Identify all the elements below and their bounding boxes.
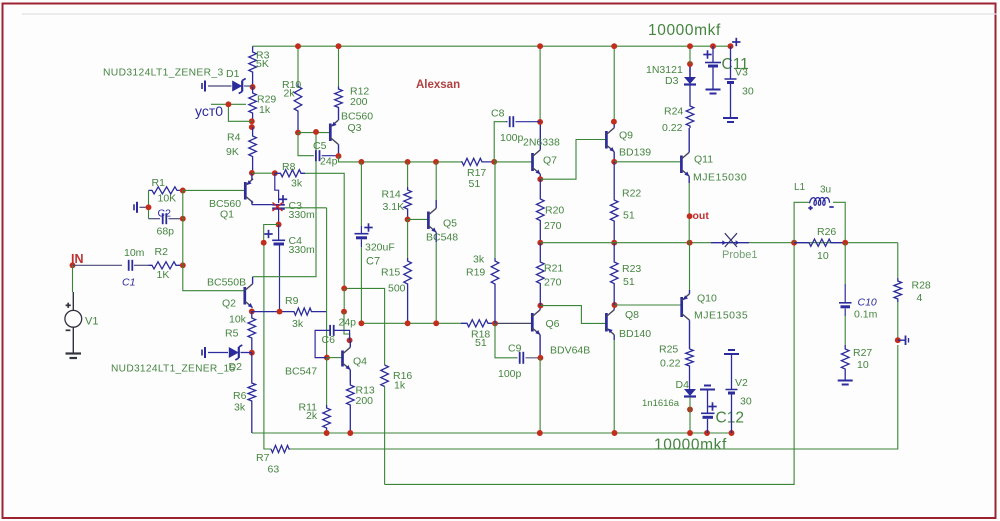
- junction R28 tie: [895, 337, 901, 343]
- wire Q2 collector to Q3 base: [253, 132, 316, 277]
- svg-text:C7: C7: [366, 256, 380, 268]
- svg-text:68p: 68p: [157, 226, 175, 238]
- svg-text:Probe1: Probe1: [722, 249, 757, 261]
- svg-text:BD140: BD140: [619, 328, 651, 340]
- capacitor C10: [839, 284, 852, 316]
- label C2: [158, 208, 172, 220]
- junction R20 bottom: [537, 240, 543, 246]
- svg-text:R24: R24: [664, 106, 683, 118]
- resistor R7: [256, 445, 290, 475]
- svg-text:320uF: 320uF: [365, 242, 395, 254]
- svg-text:330m: 330m: [289, 209, 316, 221]
- transistor Q2: [245, 277, 253, 308]
- junction R7 top node: [261, 240, 267, 246]
- svg-text:Alexsan: Alexsan: [416, 79, 460, 91]
- label C12: [716, 410, 744, 427]
- label C10: [858, 297, 877, 309]
- capacitor C4: [264, 225, 285, 245]
- wire C10 bottom lead: [844, 316, 846, 345]
- junction Q2 emitter: [249, 308, 255, 314]
- svg-text:Q1: Q1: [220, 209, 234, 221]
- wire feedback line R7 row: [290, 345, 898, 449]
- svg-text:500: 500: [388, 283, 406, 295]
- capacitor C12: [700, 386, 717, 434]
- wire Q8 emitter to rail: [613, 340, 615, 433]
- resistor R16: [381, 365, 413, 392]
- junction rail r12: [336, 43, 342, 49]
- junction IN node: [70, 262, 76, 268]
- label C3: [289, 200, 316, 221]
- svg-text:10k: 10k: [229, 314, 247, 326]
- svg-text:R7: R7: [256, 452, 270, 464]
- wire Q5 collector: [435, 162, 437, 200]
- svg-text:V3: V3: [735, 67, 748, 79]
- wire D3 to rail: [689, 46, 691, 64]
- ground V1: [66, 354, 82, 359]
- label C8: [491, 108, 505, 120]
- svg-text:R5: R5: [225, 328, 239, 340]
- svg-text:0.22: 0.22: [662, 122, 683, 134]
- resistor R29: [249, 87, 277, 121]
- junction D3 top: [687, 61, 693, 67]
- junction rail d3: [687, 43, 693, 49]
- svg-text:63: 63: [268, 464, 280, 476]
- svg-text:1n1616a: 1n1616a: [642, 398, 680, 409]
- svg-text:4: 4: [917, 292, 923, 304]
- junction rail v3: [728, 43, 734, 49]
- label D4: [642, 379, 689, 409]
- wire R7 left bend: [264, 243, 271, 449]
- junction R8 column b: [341, 309, 347, 315]
- svg-text:R20: R20: [545, 205, 564, 217]
- svg-text:D1: D1: [226, 68, 240, 80]
- transistor Q10: [682, 290, 690, 349]
- svg-text:уст0: уст0: [195, 103, 223, 119]
- svg-text:R23: R23: [622, 263, 641, 275]
- wire C9 left leg: [495, 323, 516, 357]
- wire R14 top lead: [407, 162, 409, 187]
- junction уст0: [225, 101, 231, 107]
- svg-text:C2: C2: [158, 208, 172, 220]
- svg-text:200: 200: [350, 96, 368, 108]
- tie input left: [134, 202, 149, 213]
- junction Q4 base: [324, 355, 330, 361]
- junction C4 top: [276, 222, 282, 228]
- junction Q6 emitter node: [537, 355, 543, 361]
- svg-text:0.22: 0.22: [660, 358, 681, 370]
- label L1: [794, 182, 831, 196]
- svg-text:200: 200: [356, 395, 374, 407]
- junction out bus q11: [687, 240, 693, 246]
- junction R14 top: [405, 159, 411, 165]
- label out: [693, 210, 710, 222]
- wire Q1 collector: [252, 204, 272, 206]
- svg-text:out: out: [693, 210, 710, 222]
- wire Q9 emitter to Q11 base: [614, 161, 681, 163]
- label C2 value: [157, 226, 175, 238]
- resistor R26: [794, 226, 845, 262]
- junction rail q7: [537, 43, 543, 49]
- label D2: [229, 361, 243, 373]
- wire R19 top lead: [494, 162, 496, 258]
- transistor Q6: [532, 306, 540, 358]
- wire C5 left leg: [298, 133, 313, 156]
- resistor R19: [466, 254, 499, 324]
- junction mid bus a: [358, 320, 364, 326]
- label C1: [122, 277, 135, 289]
- wire positive rail: [253, 45, 731, 47]
- wire negative rail: [252, 432, 732, 434]
- wire R9 row: [252, 311, 290, 313]
- svg-text:BC547: BC547: [285, 366, 317, 378]
- resistor R10: [282, 79, 302, 133]
- svg-text:30: 30: [740, 396, 752, 408]
- svg-text:D4: D4: [676, 379, 690, 391]
- junction R29 bottom: [249, 118, 255, 130]
- svg-text:Q10: Q10: [697, 293, 717, 305]
- svg-text:V2: V2: [735, 377, 748, 389]
- wire C3 to Q4 column: [285, 207, 327, 209]
- junction R8 column a: [341, 285, 347, 291]
- svg-text:2N6338: 2N6338: [523, 137, 560, 149]
- resistor R1: [149, 177, 183, 205]
- svg-text:10K: 10K: [158, 193, 177, 205]
- wire column to jog: [343, 288, 345, 311]
- svg-text:R21: R21: [544, 263, 563, 275]
- svg-text:BC548: BC548: [426, 232, 458, 244]
- label Q9: [619, 130, 651, 159]
- svg-text:MJE15030: MJE15030: [693, 172, 747, 184]
- wire R1 left leg: [148, 190, 150, 218]
- zener diode D1: [202, 79, 253, 94]
- wire Q5 emitter: [435, 242, 437, 323]
- zener diode D2: [202, 345, 252, 360]
- svg-text:24p: 24p: [339, 317, 357, 329]
- mark C3 cross: [273, 203, 283, 212]
- junction R18 right: [492, 320, 498, 326]
- wire Q7 collector to rail: [539, 46, 541, 122]
- label C10 value: [854, 309, 878, 321]
- label Q4: [285, 356, 367, 378]
- svg-text:D3: D3: [665, 75, 679, 87]
- wire output bus right: [749, 242, 898, 244]
- label V1: [85, 316, 98, 328]
- top grey rule: [22, 13, 997, 15]
- label Probe1: [722, 249, 757, 261]
- svg-text:Q7: Q7: [543, 155, 557, 167]
- mark V3 plus: [732, 38, 740, 46]
- resistor R17: [461, 158, 494, 190]
- wire C3 top jog: [275, 173, 279, 203]
- resistor R14: [382, 187, 412, 219]
- wire C7 bottom lead: [360, 247, 362, 323]
- label C6: [322, 334, 336, 346]
- source V1: [65, 292, 82, 353]
- junction Q9 emitter node: [611, 159, 617, 165]
- resistor R2: [149, 246, 183, 281]
- wire R28 leads: [897, 243, 899, 341]
- source V3: [725, 46, 737, 117]
- svg-text:1K: 1K: [157, 269, 170, 281]
- svg-text:NUD3124LT1_ZENER_15: NUD3124LT1_ZENER_15: [111, 364, 235, 375]
- wire Q6 base: [495, 322, 532, 324]
- source V2: [724, 350, 739, 433]
- svg-text:3k: 3k: [473, 254, 485, 266]
- wire Q10 emitter to out: [689, 243, 691, 290]
- junction Q1 emitter node: [249, 170, 255, 176]
- svg-text:C8: C8: [491, 108, 505, 120]
- wire output bus: [540, 242, 711, 244]
- wire C8 left leg: [494, 122, 506, 162]
- svg-text:5K: 5K: [256, 58, 269, 70]
- svg-text:R2: R2: [155, 246, 169, 258]
- wire out feedback drop: [385, 243, 794, 485]
- inductor L1: [794, 198, 845, 243]
- label Q7: [523, 137, 560, 167]
- wire C4 left bracket: [264, 225, 279, 243]
- net label уст0: [195, 103, 223, 119]
- junction mid bus b: [405, 320, 411, 326]
- wire Q9 collector to rail: [613, 46, 615, 122]
- svg-text:BC560: BC560: [341, 111, 373, 123]
- svg-text:C12: C12: [716, 410, 744, 427]
- wire middle bus: [361, 322, 461, 324]
- junction tie node: [146, 204, 152, 210]
- transistor Q11: [681, 128, 689, 183]
- svg-text:BC550B: BC550B: [207, 277, 246, 289]
- svg-text:3k: 3k: [234, 402, 246, 414]
- wire Q2 base: [183, 265, 245, 290]
- label Alexsan: [416, 79, 460, 91]
- wire R8 to Q4 collector column: [305, 173, 344, 288]
- svg-text:R4: R4: [227, 132, 241, 144]
- label C11: [722, 56, 749, 73]
- svg-text:51: 51: [623, 276, 635, 288]
- junction D2 node: [249, 350, 255, 356]
- junction rail v2: [729, 430, 735, 436]
- svg-text:R22: R22: [622, 188, 641, 200]
- junction out bus L1 left: [791, 240, 797, 246]
- wire Q7 emitter to Q9 base: [540, 140, 606, 180]
- svg-text:2k: 2k: [306, 410, 318, 422]
- svg-text:V1: V1: [85, 316, 98, 328]
- label BC560 Q3: [341, 111, 373, 135]
- resistor R4: [226, 127, 256, 173]
- label C5: [313, 140, 327, 152]
- label V3: [735, 67, 754, 98]
- resistor R18: [461, 320, 495, 349]
- wire jog to Q4 collector: [344, 312, 350, 341]
- resistor R27: [841, 345, 872, 380]
- svg-text:270: 270: [544, 220, 562, 232]
- junction rail d4: [687, 430, 693, 436]
- svg-text:1k: 1k: [259, 104, 271, 116]
- svg-text:R8: R8: [282, 161, 296, 173]
- svg-text:Q3: Q3: [348, 122, 362, 134]
- wire Q4 base stub: [327, 357, 343, 359]
- svg-text:NUD3124LT1_ZENER_3: NUD3124LT1_ZENER_3: [103, 68, 224, 79]
- transistor Q5: [428, 200, 436, 242]
- capacitor C1: [129, 260, 149, 271]
- junction Q5 base node: [405, 216, 411, 222]
- label C5 value: [320, 156, 338, 168]
- junction C4 bottom node: [277, 309, 283, 315]
- svg-text:51: 51: [475, 337, 487, 349]
- junction mid bus c: [433, 320, 439, 326]
- svg-text:10m: 10m: [124, 247, 145, 259]
- capacitor C6: [315, 325, 350, 358]
- label C7: [366, 256, 380, 268]
- label 10000mkf top: [648, 22, 721, 39]
- resistor R24: [662, 64, 694, 134]
- junction R11 bottom: [324, 430, 330, 436]
- wire R16 column upper: [344, 288, 384, 365]
- label C8 value: [500, 132, 524, 144]
- svg-text:Q11: Q11: [694, 154, 713, 166]
- resistor R22: [610, 162, 641, 243]
- wire Q10 base link: [615, 304, 682, 306]
- svg-text:D2: D2: [229, 361, 243, 373]
- label 10000mkf bottom: [654, 437, 727, 454]
- tie R28: [898, 336, 909, 346]
- diode D3: [684, 64, 696, 85]
- wire Q6 emitter to rail: [539, 358, 541, 433]
- resistor R5: [225, 311, 256, 352]
- wire IN to C1: [73, 264, 123, 266]
- probe Probe1: [711, 233, 749, 247]
- label C1 value: [124, 247, 145, 259]
- capacitor C8: [506, 116, 540, 127]
- junction R10 bottom: [295, 130, 301, 136]
- svg-text:0.1m: 0.1m: [854, 309, 878, 321]
- junction D1 node: [250, 84, 256, 90]
- junction R13 bottom: [347, 430, 353, 436]
- capacitor C3: [272, 195, 287, 209]
- svg-text:Q4: Q4: [353, 356, 367, 368]
- svg-text:9K: 9K: [226, 146, 239, 158]
- label BC550B Q2: [207, 277, 246, 310]
- ground V3: [723, 118, 738, 122]
- junction Q4 collector node: [347, 337, 353, 343]
- transistor Q8: [606, 305, 614, 340]
- transistor Q3: [330, 108, 338, 156]
- svg-text:Q2: Q2: [222, 298, 236, 310]
- junction C7 top: [358, 159, 364, 165]
- wire Q6 to Q8 link: [540, 306, 606, 324]
- resistor R13: [347, 383, 375, 433]
- wire C10 top lead: [844, 243, 846, 284]
- resistor R9: [285, 295, 327, 330]
- svg-text:C1: C1: [122, 277, 135, 289]
- junction Q7 emitter node: [537, 176, 543, 182]
- label BC560 Q1: [209, 198, 241, 221]
- resistor R25: [659, 344, 693, 390]
- junction rail q9: [611, 43, 617, 49]
- junction Q9 collector pin: [611, 119, 617, 125]
- resistor R12: [335, 86, 370, 109]
- label V2: [735, 377, 752, 408]
- svg-text:270: 270: [544, 277, 562, 289]
- svg-text:10000mkf: 10000mkf: [654, 437, 727, 454]
- svg-text:R6: R6: [233, 390, 247, 402]
- svg-text:10000mkf: 10000mkf: [648, 22, 721, 39]
- capacitor C7: [355, 223, 373, 247]
- wire C7 top lead: [360, 162, 362, 226]
- junction Q8 top node: [612, 302, 618, 308]
- svg-text:L1: L1: [794, 182, 806, 193]
- wire VAS bus: [339, 156, 462, 162]
- junction Q5 collector node: [433, 159, 439, 165]
- wire Q3 base row: [298, 132, 330, 134]
- wire R12 top lead: [338, 46, 340, 86]
- transistor Q1: [245, 173, 253, 205]
- label Q10: [694, 293, 748, 322]
- svg-text:24p: 24p: [320, 156, 338, 168]
- svg-text:10: 10: [857, 359, 869, 371]
- svg-text:R1: R1: [152, 177, 166, 189]
- capacitor C2: [149, 213, 183, 224]
- resistor R28: [894, 278, 931, 304]
- wire Q1 emitter to R8 node: [252, 172, 275, 174]
- wire Q5 base: [408, 218, 429, 220]
- svg-text:100p: 100p: [498, 368, 522, 380]
- junction C8 right node: [537, 119, 543, 125]
- junction R8 left: [272, 170, 278, 176]
- resistor R8: [275, 161, 305, 190]
- svg-text:R28: R28: [912, 280, 931, 292]
- svg-text:R9: R9: [285, 295, 299, 307]
- label C4: [289, 235, 316, 256]
- junction out pin: [687, 213, 693, 219]
- resistor R23: [610, 243, 641, 305]
- label C7 value: [365, 242, 395, 254]
- capacitor C9: [516, 352, 541, 364]
- wire Q1 base: [183, 189, 246, 191]
- junction Q6 collector node: [537, 303, 543, 309]
- svg-text:10: 10: [817, 250, 829, 262]
- wire Q4 base column: [326, 208, 328, 358]
- resistor R15: [381, 258, 411, 323]
- junction Q3 base node: [313, 129, 319, 135]
- svg-text:R15: R15: [381, 267, 400, 279]
- svg-text:30: 30: [742, 86, 754, 98]
- svg-text:51: 51: [469, 178, 481, 190]
- svg-text:51: 51: [623, 210, 635, 222]
- label C9: [498, 343, 522, 381]
- svg-text:Q8: Q8: [625, 309, 639, 321]
- label NUD3124LT1_ZENER_3: [103, 68, 224, 79]
- junction C2 right: [180, 216, 186, 222]
- svg-text:MJE15035: MJE15035: [694, 310, 748, 322]
- junction neg rail a: [537, 430, 543, 436]
- capacitor C5: [313, 150, 339, 161]
- label IN: [71, 252, 84, 266]
- junction C8 left node: [491, 159, 497, 165]
- wire node vertical R1-R2: [182, 191, 184, 266]
- ground R27: [838, 381, 853, 385]
- wire C4 bottom: [279, 246, 281, 312]
- label Q11: [693, 154, 747, 184]
- svg-text:R26: R26: [817, 226, 836, 238]
- svg-text:C9: C9: [508, 343, 522, 355]
- label D3: [646, 64, 683, 87]
- junction R2 right: [180, 262, 186, 268]
- svg-text:3k: 3k: [292, 318, 304, 330]
- transistor Q4: [343, 340, 351, 383]
- svg-text:1k: 1k: [394, 380, 406, 392]
- svg-text:BD139: BD139: [619, 147, 651, 159]
- junction out bus R26 right: [842, 240, 848, 246]
